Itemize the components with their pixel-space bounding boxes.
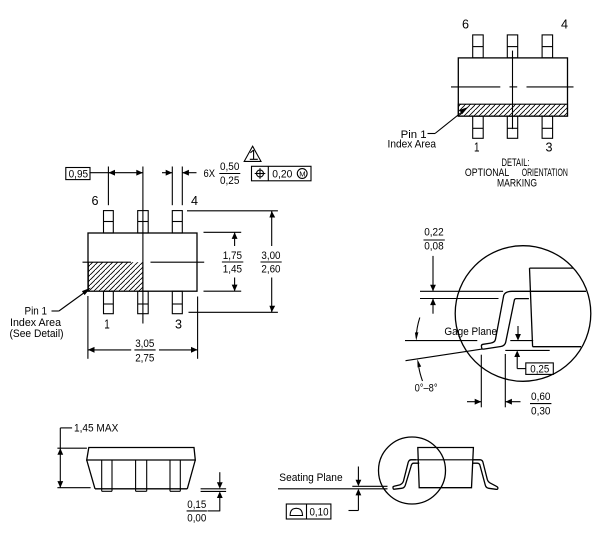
svg-text:0,50: 0,50 [220, 161, 239, 173]
lead exit line E [410, 459, 481, 461]
svg-text:Pin 1: Pin 1 [25, 305, 48, 317]
lead 2 side view [136, 460, 147, 491]
svg-text:3,00: 3,00 [261, 250, 280, 262]
dimension 0,60/0,30 [467, 354, 551, 417]
angle dimension 0-8 deg [415, 318, 438, 395]
svg-text:0,30: 0,30 [531, 405, 551, 417]
dimension 3,00/2,60 [261, 211, 282, 312]
svg-text:0,15: 0,15 [187, 499, 206, 511]
svg-text:6X: 6X [204, 168, 216, 180]
right gull-wing lead [473, 460, 498, 490]
package body A [88, 233, 197, 291]
svg-text:Index Area: Index Area [10, 317, 62, 329]
seating plane lines [278, 486, 388, 489]
dimension 6X 0,50/0,25 arrows [162, 170, 197, 176]
feature control frame: position 0,20 M [252, 166, 312, 181]
pin 1 B [473, 116, 484, 138]
pin 5 B [507, 35, 517, 58]
lead 3 side view [170, 460, 180, 491]
pin 3 (bottom-right lead) [172, 291, 182, 314]
body side view E [418, 448, 474, 488]
lead profile in detail [481, 291, 586, 349]
svg-text:0,60: 0,60 [531, 391, 551, 403]
svg-text:0,25: 0,25 [530, 363, 549, 375]
leader Pin 1 Index Area B [388, 107, 469, 150]
dimension 1,75/1,45 [222, 232, 243, 291]
pin 2 (bottom-center lead) [138, 291, 149, 314]
svg-text:0,22: 0,22 [424, 227, 444, 239]
svg-text:1: 1 [474, 140, 480, 155]
note flag triangle 1 [244, 146, 261, 161]
dimension arrows seating plane [349, 467, 362, 511]
gage plane line [405, 340, 533, 342]
svg-text:1,45 MAX: 1,45 MAX [74, 422, 119, 434]
svg-text:0,10: 0,10 [310, 506, 329, 518]
pin 4 B [542, 35, 553, 58]
flatness feature control frame 0,10 [286, 504, 331, 519]
leader Pin 1 Index Area (See Detail) [10, 288, 91, 340]
extension line pin6 centerline [107, 167, 109, 206]
extension lines pin4 edges [172, 167, 182, 206]
svg-text:2,75: 2,75 [135, 352, 154, 364]
svg-text:3,05: 3,05 [135, 338, 154, 350]
svg-text:0,95: 0,95 [69, 169, 89, 181]
orientation marking hatch band [458, 104, 567, 116]
body edge in detail [530, 268, 582, 347]
svg-text:1,75: 1,75 [223, 250, 242, 262]
pin 5 (top-center lead) [138, 211, 149, 233]
pin 4 (top-right lead) [172, 211, 182, 233]
dimension 3,05/2,75 [88, 296, 198, 364]
svg-text:0,20: 0,20 [272, 169, 292, 181]
svg-text:0,00: 0,00 [187, 512, 206, 524]
svg-text:Seating Plane: Seating Plane [279, 472, 342, 484]
pin 6 B [473, 35, 484, 58]
svg-text:2,60: 2,60 [261, 264, 280, 276]
svg-text:MARKING: MARKING [497, 177, 537, 189]
left gull-wing lead [393, 460, 419, 489]
svg-text:4: 4 [191, 193, 198, 208]
package body B [458, 58, 567, 116]
extension line body bottom (right) [204, 290, 242, 292]
body side view top slab [87, 448, 196, 461]
svg-text:1: 1 [104, 317, 110, 332]
extension lines D left [57, 448, 90, 488]
svg-text:3: 3 [546, 140, 553, 155]
extension line body top (right) [204, 231, 242, 233]
pin 2 B [507, 116, 517, 138]
lead thickness extension lines [420, 291, 503, 298]
svg-text:1,45: 1,45 [223, 264, 242, 276]
pin 1 index area hatch [88, 262, 143, 291]
extension line bottom pin tips (right) [189, 311, 278, 313]
svg-text:6: 6 [462, 17, 469, 32]
horizontal centerline A [83, 261, 205, 263]
svg-text:0,08: 0,08 [424, 241, 444, 253]
dimension 0,15/0,00 [187, 472, 223, 524]
detail circle C [455, 246, 591, 382]
dimension 0,95 leader and arrows [89, 170, 142, 176]
svg-text:3: 3 [175, 317, 182, 332]
svg-text:4: 4 [561, 17, 568, 32]
extension line from top pin tips (right) [187, 210, 278, 212]
dimension 0,25 with box [514, 326, 553, 375]
body side view lower part [87, 460, 196, 489]
vertical centerline B [512, 51, 514, 130]
dimension 0,95 box [66, 168, 90, 180]
dimension 0,22/0,08 [424, 227, 445, 314]
svg-text:(See Detail): (See Detail) [10, 328, 64, 340]
pin 1 (bottom-left lead) [104, 291, 114, 314]
pin 3 B [542, 116, 553, 138]
svg-text:M: M [299, 169, 305, 178]
horizontal centerline B [451, 86, 574, 88]
dimension 1,45 leader and line [57, 428, 72, 488]
svg-text:6: 6 [92, 193, 99, 208]
svg-text:0°–8°: 0°–8° [415, 382, 438, 394]
svg-text:Index Area: Index Area [388, 138, 437, 150]
svg-text:0,25: 0,25 [220, 175, 239, 187]
detail circle E [379, 437, 446, 504]
pin 6 (top-left lead) [104, 211, 114, 233]
extension lines D right [201, 489, 227, 492]
foot angle extension line [406, 349, 483, 361]
svg-text:Gage Plane: Gage Plane [444, 326, 497, 338]
vertical centerline A [142, 167, 144, 324]
lead 1 side view [102, 460, 112, 491]
seating plane line in detail [505, 349, 549, 351]
